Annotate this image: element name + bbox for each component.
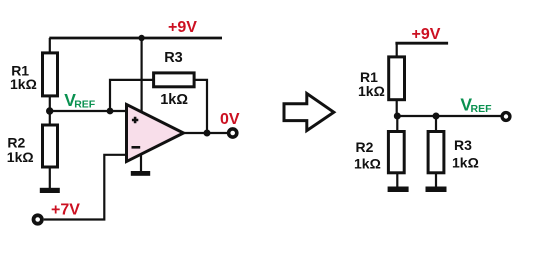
svg-text:1kΩ: 1kΩ (354, 155, 381, 171)
svg-text:1kΩ: 1kΩ (160, 92, 188, 108)
wire: R1 bottom to VREF node (right) (396, 100, 398, 116)
svg-text:REF: REF (74, 99, 96, 111)
wire: VREF node rail to terminal (397, 115, 501, 117)
ground (below R2, right circuit) (388, 187, 409, 193)
wire: R3 left lead to + input node (110, 80, 154, 111)
node VREF junction dot (46, 107, 53, 114)
resistor R2 (left circuit) (43, 125, 58, 167)
node: junction dot at + input / R3 tap (107, 108, 114, 115)
node: junction dot above R2 (right) (394, 113, 401, 120)
wire: +7V terminal to op-amp - input (44, 155, 127, 220)
wire: +9V rail to op-amp power pin (141, 38, 143, 112)
op-amp U1 (127, 105, 184, 162)
svg-text:0V: 0V (220, 111, 240, 128)
ground (below op-amp) (131, 171, 150, 176)
svg-text:1kΩ: 1kΩ (358, 83, 385, 99)
resistor R1 (right circuit) (389, 57, 405, 100)
wire: R2 bottom to ground (49, 169, 51, 189)
wire: rail stem to R1 top (49, 38, 51, 53)
svg-text:1kΩ: 1kΩ (452, 155, 479, 171)
resistor R1 (left circuit) (43, 53, 58, 96)
ground (below R2, left circuit) (40, 188, 60, 193)
pin: op-amp + input symbol (132, 117, 138, 123)
node: junction dot above R3 (right) (433, 113, 440, 120)
wire: rail stem to R1 top (right) (396, 43, 398, 57)
wire: op-amp ground pin (140, 154, 142, 172)
svg-text:+9V: +9V (412, 26, 441, 43)
svg-text:1kΩ: 1kΩ (10, 76, 37, 92)
svg-text:REF: REF (471, 103, 493, 115)
wire: R3 right lead down to output (194, 80, 207, 133)
pin: op-amp - input symbol (132, 146, 141, 149)
terminal: VREF output (right) (502, 113, 510, 121)
svg-text:R3: R3 (454, 137, 472, 153)
svg-text:+9V: +9V (168, 19, 197, 36)
svg-text:1kΩ: 1kΩ (7, 149, 34, 165)
svg-text:R3: R3 (164, 50, 183, 66)
resistor R3 (left circuit) (154, 73, 195, 87)
wire: VREF node to op-amp + input (50, 110, 127, 112)
node: junction dot at output (204, 130, 211, 137)
terminal: 0V output (229, 129, 237, 137)
arrow: transformation block arrow (284, 94, 334, 131)
wire: R1 bottom to R2 top (49, 96, 51, 126)
wire: right +9V top rail (395, 42, 448, 45)
wire: left +9V top rail (49, 37, 222, 40)
wire: R2 bottom to ground (right) (396, 174, 398, 187)
terminal: +7V input (34, 215, 42, 223)
wire: node to R3 top (right) (435, 116, 437, 131)
ground (below R3, right circuit) (426, 187, 447, 193)
wire: op-amp output to 0V terminal (184, 132, 228, 134)
wire: node to R2 top (right) (396, 116, 398, 131)
node: junction dot on +9V rail (138, 35, 144, 41)
svg-text:R2: R2 (356, 139, 374, 155)
resistor R2 (right circuit) (388, 132, 404, 173)
wire: R3 bottom to ground (right) (435, 174, 437, 187)
resistor R3 (right circuit) (428, 132, 444, 173)
svg-text:+7V: +7V (51, 202, 80, 219)
